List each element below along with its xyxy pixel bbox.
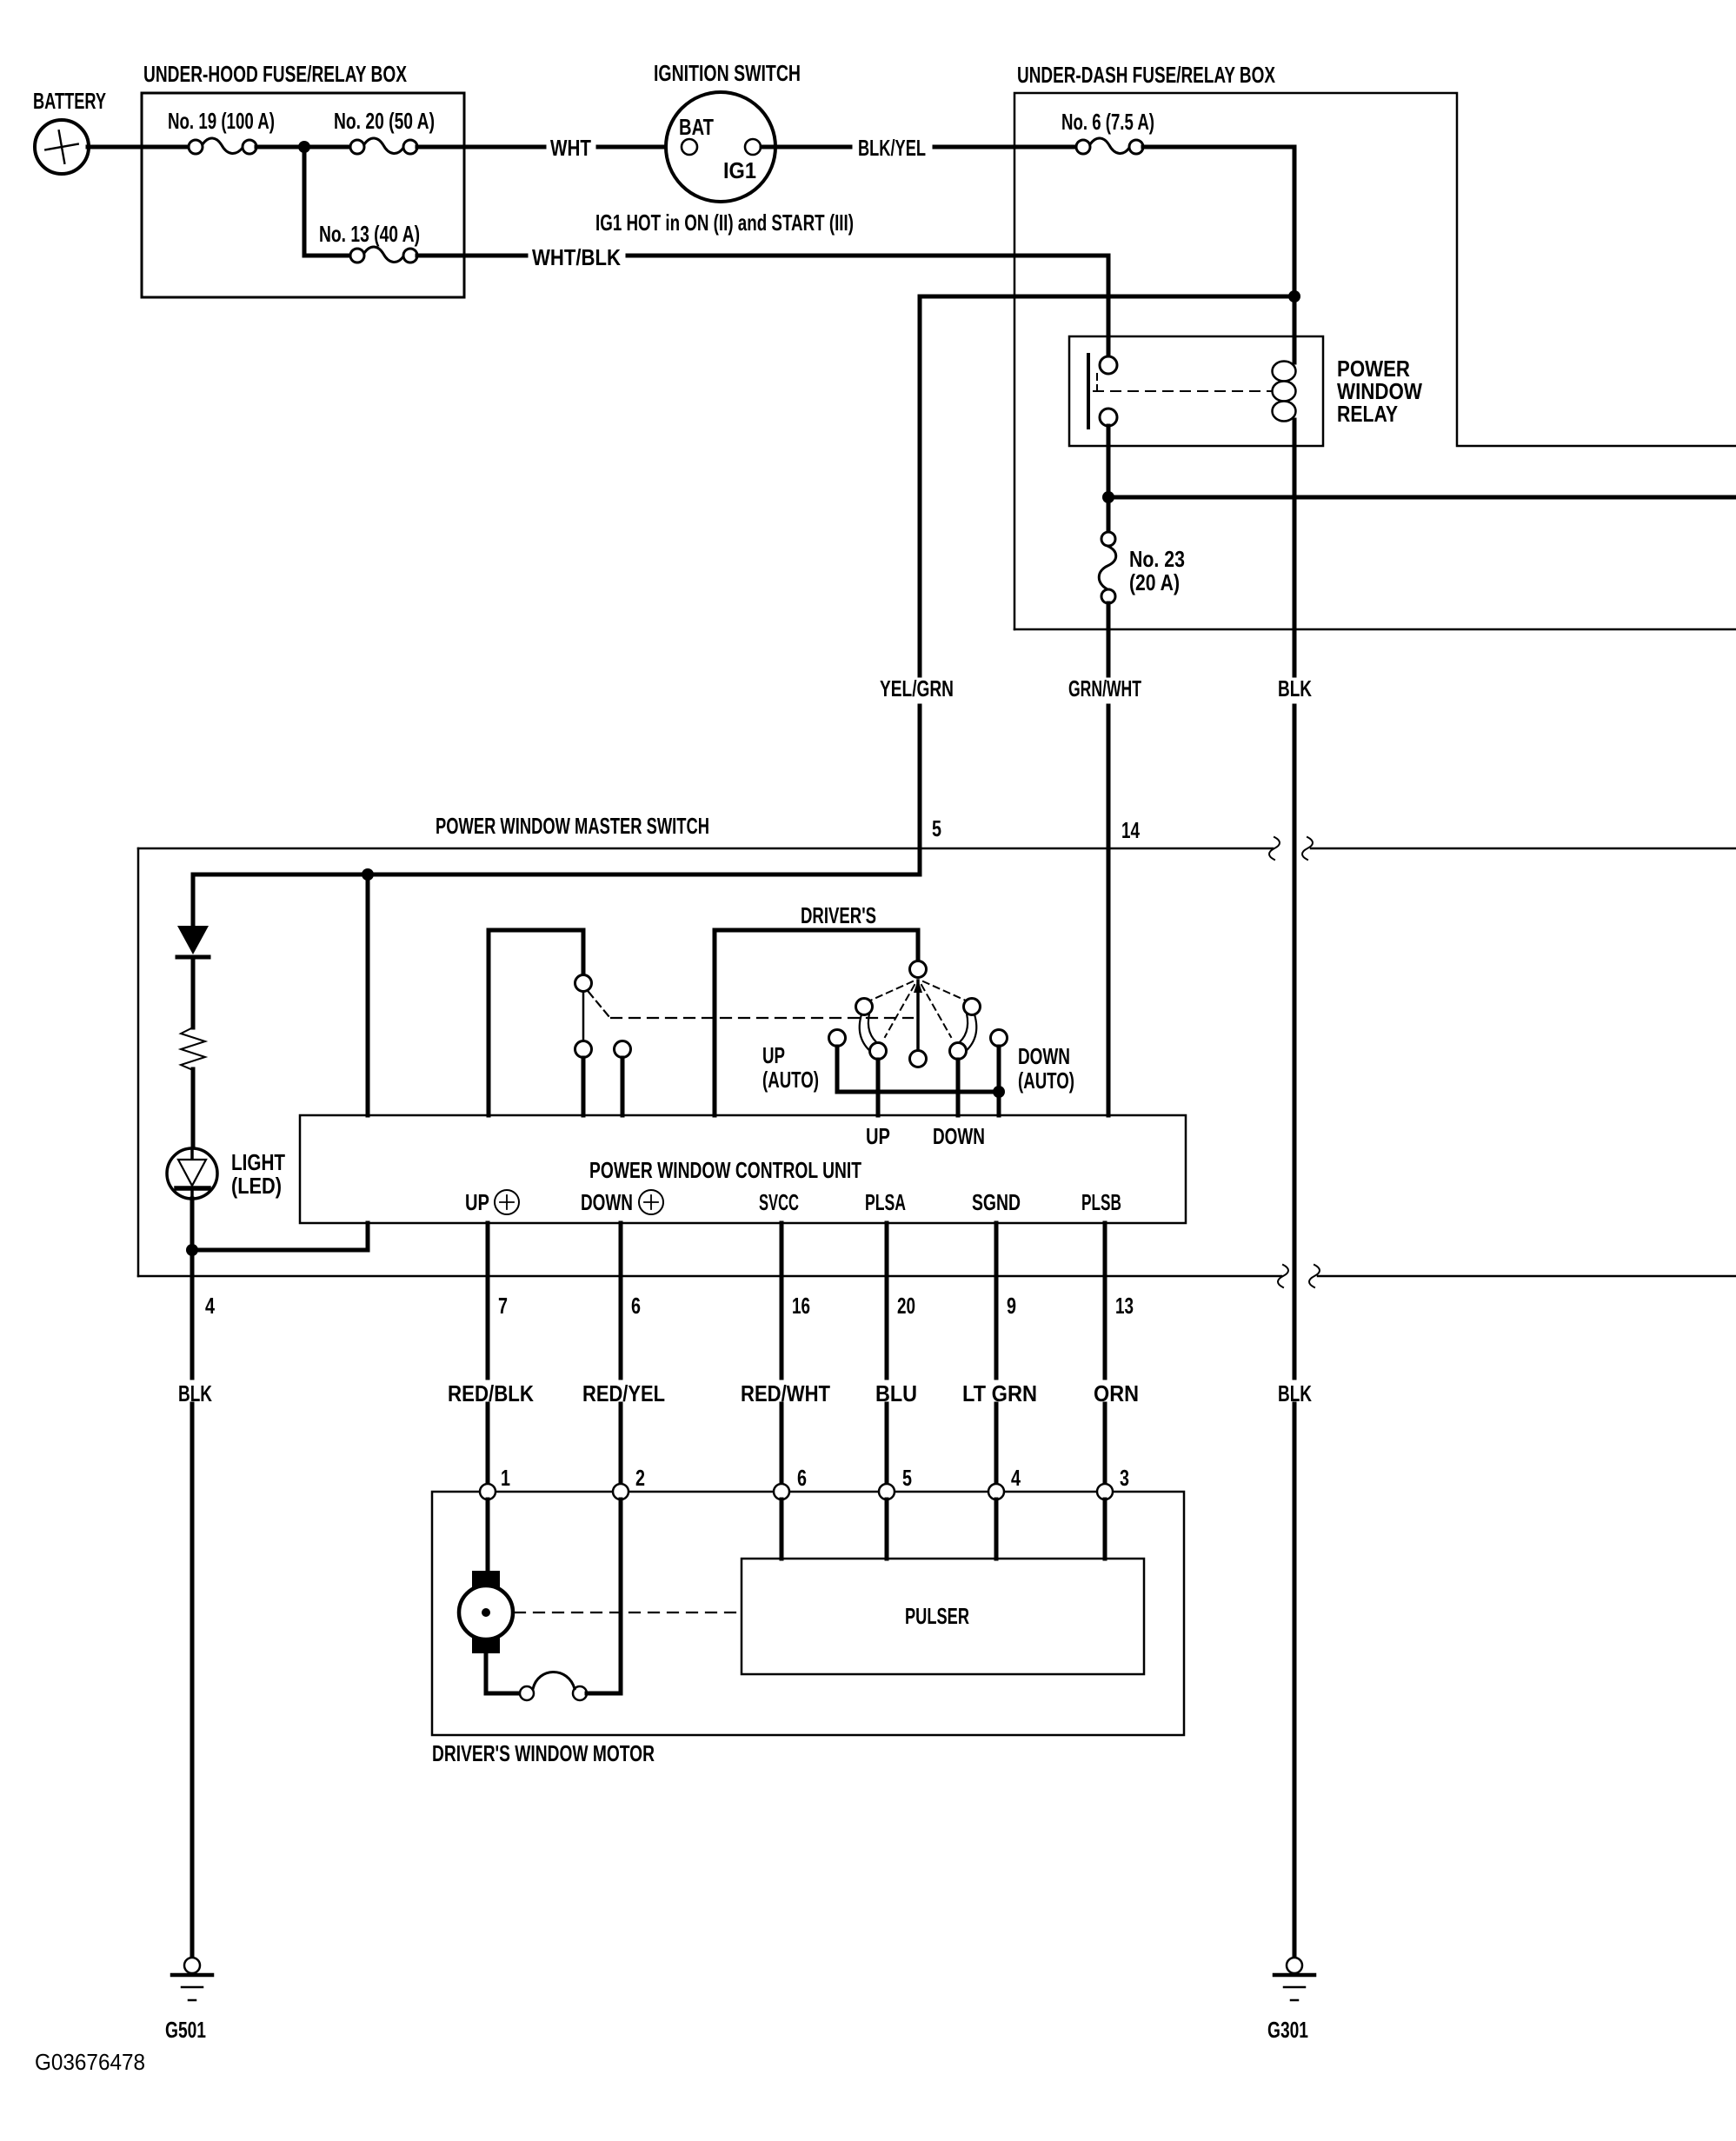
svg-text:DOWN: DOWN bbox=[581, 1189, 633, 1215]
pin 20 wire bbox=[885, 1223, 889, 1378]
svg-text:No. 23: No. 23 bbox=[1129, 546, 1185, 572]
svg-text:No. 20 (50 A): No. 20 (50 A) bbox=[334, 108, 435, 134]
svg-text:G301: G301 bbox=[1267, 2017, 1308, 2043]
svg-text:BLK: BLK bbox=[1278, 675, 1312, 701]
armature bbox=[916, 981, 920, 1050]
battery bbox=[35, 120, 89, 174]
ground G501 bbox=[184, 1958, 200, 1973]
svg-text:RELAY: RELAY bbox=[1337, 401, 1398, 427]
resistor to LED wire bbox=[191, 1069, 196, 1149]
inner pin wires bbox=[780, 1499, 784, 1559]
motor-pulser dashed link bbox=[515, 1612, 742, 1613]
relay contact lower stub to fuse23 bbox=[1107, 426, 1111, 532]
commutator bbox=[520, 1686, 534, 1700]
wire WHT/BLK to relay contact drop bbox=[628, 254, 1108, 258]
svg-text:6: 6 bbox=[631, 1293, 641, 1319]
return wire to control unit bbox=[192, 1248, 368, 1253]
pin 7 wire bbox=[486, 1223, 490, 1378]
motor connector pins bbox=[480, 1484, 496, 1499]
inner top wire bbox=[193, 873, 920, 877]
relay coil stubs bbox=[1293, 296, 1297, 362]
svg-text:No. 19 (100 A): No. 19 (100 A) bbox=[168, 108, 275, 134]
svg-text:POWER WINDOW MASTER SWITCH: POWER WINDOW MASTER SWITCH bbox=[436, 813, 709, 839]
pin 4 wire down bbox=[190, 1250, 195, 1378]
junction node bbox=[298, 141, 310, 153]
BAT terminal bbox=[682, 139, 697, 155]
svg-text:LIGHT: LIGHT bbox=[231, 1149, 285, 1175]
relay dashed linkage bbox=[1096, 374, 1098, 391]
junction node GRN/WHT bbox=[1102, 491, 1114, 503]
resistor bbox=[181, 1027, 205, 1070]
pulser box bbox=[742, 1559, 1144, 1674]
pin 16 wire bbox=[780, 1223, 784, 1378]
svg-text:BLU: BLU bbox=[875, 1380, 917, 1406]
LED to junction bbox=[190, 1199, 195, 1250]
svg-text:7: 7 bbox=[498, 1293, 508, 1319]
svg-text:WHT: WHT bbox=[550, 135, 591, 161]
pins to control unit bbox=[876, 1060, 881, 1115]
junction node bbox=[993, 1086, 1005, 1098]
pin 6 wire bbox=[619, 1223, 623, 1378]
svg-text:RED/YEL: RED/YEL bbox=[582, 1380, 665, 1406]
motor to commutator bbox=[484, 1653, 489, 1693]
relay coil bbox=[1273, 362, 1296, 382]
svg-text:1: 1 bbox=[501, 1465, 510, 1491]
wire fuse6 to corner down bbox=[1143, 145, 1294, 150]
fuse No.6 bbox=[1090, 138, 1129, 154]
wire WHT to ignition bbox=[598, 145, 682, 150]
svg-text:BLK/YEL: BLK/YEL bbox=[858, 135, 926, 161]
svg-text:20: 20 bbox=[897, 1293, 915, 1319]
wire IG1 to BLK/YEL bbox=[762, 145, 850, 150]
left switch dashed linkage bbox=[589, 992, 609, 1017]
left switch contacts bbox=[582, 992, 585, 1041]
GRN/WHT wire down bbox=[1107, 603, 1111, 675]
svg-text:SVCC: SVCC bbox=[759, 1189, 799, 1215]
svg-text:LT GRN: LT GRN bbox=[962, 1380, 1037, 1406]
drop to control unit bbox=[366, 874, 370, 1115]
driver's window motor box bbox=[432, 1492, 1184, 1735]
svg-text:RED/BLK: RED/BLK bbox=[448, 1380, 534, 1406]
svg-text:POWER WINDOW CONTROL UNIT: POWER WINDOW CONTROL UNIT bbox=[589, 1157, 861, 1183]
svg-text:G03676478: G03676478 bbox=[35, 2049, 145, 2075]
right crescent bbox=[964, 1014, 976, 1053]
svg-text:DOWN: DOWN bbox=[933, 1123, 985, 1149]
svg-text:G501: G501 bbox=[165, 2017, 206, 2043]
svg-text:No. 6 (7.5 A): No. 6 (7.5 A) bbox=[1061, 109, 1154, 135]
left switch stub contact bbox=[615, 1041, 631, 1058]
wire fuse13 to WHT/BLK bbox=[417, 254, 526, 258]
svg-text:DRIVER'S WINDOW MOTOR: DRIVER'S WINDOW MOTOR bbox=[432, 1740, 655, 1766]
svg-text:No. 13 (40 A): No. 13 (40 A) bbox=[319, 221, 420, 247]
svg-text:UNDER-HOOD FUSE/RELAY BOX: UNDER-HOOD FUSE/RELAY BOX bbox=[143, 61, 407, 87]
pin 13 wire bbox=[1103, 1223, 1107, 1378]
svg-text:UP: UP bbox=[762, 1042, 785, 1068]
pivot contact bbox=[910, 961, 927, 978]
fuse No.23 bbox=[1099, 546, 1116, 589]
svg-text:BLK: BLK bbox=[1278, 1380, 1312, 1406]
diode bbox=[177, 926, 209, 954]
svg-text:GRN/WHT: GRN/WHT bbox=[1068, 675, 1141, 701]
svg-text:SGND: SGND bbox=[972, 1189, 1021, 1215]
svg-text:(20 A): (20 A) bbox=[1129, 569, 1180, 595]
svg-text:IG1 HOT in ON (II) and START (: IG1 HOT in ON (II) and START (III) bbox=[595, 209, 854, 236]
svg-text:PLSB: PLSB bbox=[1081, 1189, 1121, 1215]
wire junction drop bbox=[303, 147, 307, 256]
wire junction to fuse13 bbox=[304, 254, 350, 258]
wire junction to YEL/GRN corner bbox=[920, 295, 1294, 299]
power window control unit box bbox=[300, 1115, 1186, 1223]
master switch box top edge with break bbox=[138, 848, 1273, 850]
junction node bbox=[186, 1244, 198, 1256]
left switch U-shape bbox=[489, 930, 583, 1115]
svg-text:4: 4 bbox=[205, 1293, 215, 1319]
svg-text:UNDER-DASH FUSE/RELAY BOX: UNDER-DASH FUSE/RELAY BOX bbox=[1017, 62, 1275, 88]
relay contact pins bbox=[1100, 356, 1117, 374]
svg-text:IG1: IG1 bbox=[723, 157, 756, 183]
svg-text:WHT/BLK: WHT/BLK bbox=[532, 244, 621, 270]
svg-text:DRIVER'S: DRIVER'S bbox=[801, 902, 876, 928]
svg-text:9: 9 bbox=[1007, 1293, 1016, 1319]
relay contact bar bbox=[1087, 355, 1090, 428]
wire BLK/YEL to fuse6 bbox=[935, 145, 1077, 150]
svg-text:2: 2 bbox=[635, 1465, 645, 1491]
junction node bbox=[362, 868, 374, 881]
svg-text:YEL/GRN: YEL/GRN bbox=[880, 675, 954, 701]
fuse No.20 bbox=[364, 138, 403, 154]
driver's switch dashed rays bbox=[870, 981, 966, 1037]
LED lamp bbox=[167, 1148, 217, 1199]
master switch box left edge bbox=[137, 848, 140, 1276]
power window relay box bbox=[1069, 336, 1323, 446]
svg-text:5: 5 bbox=[902, 1465, 912, 1491]
fuse No.19 bbox=[203, 138, 243, 154]
svg-text:3: 3 bbox=[1120, 1465, 1129, 1491]
svg-text:(AUTO): (AUTO) bbox=[1018, 1067, 1074, 1094]
left crescent bbox=[860, 1014, 872, 1053]
motor bbox=[459, 1586, 513, 1639]
pin 9 wire bbox=[994, 1223, 999, 1378]
ignition switch bbox=[666, 92, 775, 202]
IG1 terminal bbox=[745, 139, 761, 155]
master switch box bottom edge with break bbox=[138, 1275, 1281, 1278]
svg-text:UP: UP bbox=[866, 1123, 890, 1149]
motor brushes bbox=[472, 1571, 500, 1587]
svg-text:IGNITION SWITCH: IGNITION SWITCH bbox=[654, 60, 801, 86]
svg-text:5: 5 bbox=[932, 815, 941, 841]
svg-text:ORN: ORN bbox=[1094, 1380, 1139, 1406]
svg-text:(AUTO): (AUTO) bbox=[762, 1067, 819, 1093]
svg-text:16: 16 bbox=[792, 1293, 810, 1319]
diode feed bbox=[191, 874, 196, 926]
svg-text:(LED): (LED) bbox=[231, 1173, 282, 1199]
svg-text:6: 6 bbox=[797, 1465, 807, 1491]
svg-text:RED/WHT: RED/WHT bbox=[741, 1380, 830, 1406]
YEL/GRN wire down bbox=[918, 296, 922, 675]
wire battery to under-hood box bbox=[88, 145, 189, 150]
svg-text:PLSA: PLSA bbox=[865, 1189, 906, 1215]
under-dash fuse/relay box bbox=[1014, 93, 1736, 629]
svg-text:4: 4 bbox=[1011, 1465, 1021, 1491]
svg-text:UP: UP bbox=[465, 1189, 489, 1215]
wire fuse19 to junction to fuse20 bbox=[256, 145, 350, 150]
svg-text:14: 14 bbox=[1121, 817, 1140, 843]
wire to right page edge bbox=[1108, 495, 1736, 500]
fuse No.13 bbox=[364, 247, 403, 263]
BLK wire down from coil bbox=[1293, 706, 1297, 1378]
svg-text:DOWN: DOWN bbox=[1018, 1043, 1070, 1069]
linkage dashed line bbox=[611, 1017, 913, 1019]
svg-text:13: 13 bbox=[1115, 1293, 1134, 1319]
svg-text:BLK: BLK bbox=[178, 1380, 212, 1406]
driver's switch U-shape bbox=[715, 930, 918, 1115]
switch contacts bbox=[856, 999, 873, 1015]
auto contact bar bbox=[835, 1047, 840, 1092]
under-hood fuse/relay box bbox=[142, 93, 464, 297]
wire fuse20 to WHT bbox=[417, 145, 544, 150]
ground G301 bbox=[1287, 1958, 1302, 1973]
svg-text:BAT: BAT bbox=[679, 114, 714, 140]
svg-text:PULSER: PULSER bbox=[905, 1603, 969, 1629]
junction node bbox=[1288, 290, 1300, 303]
svg-text:BATTERY: BATTERY bbox=[33, 88, 106, 114]
